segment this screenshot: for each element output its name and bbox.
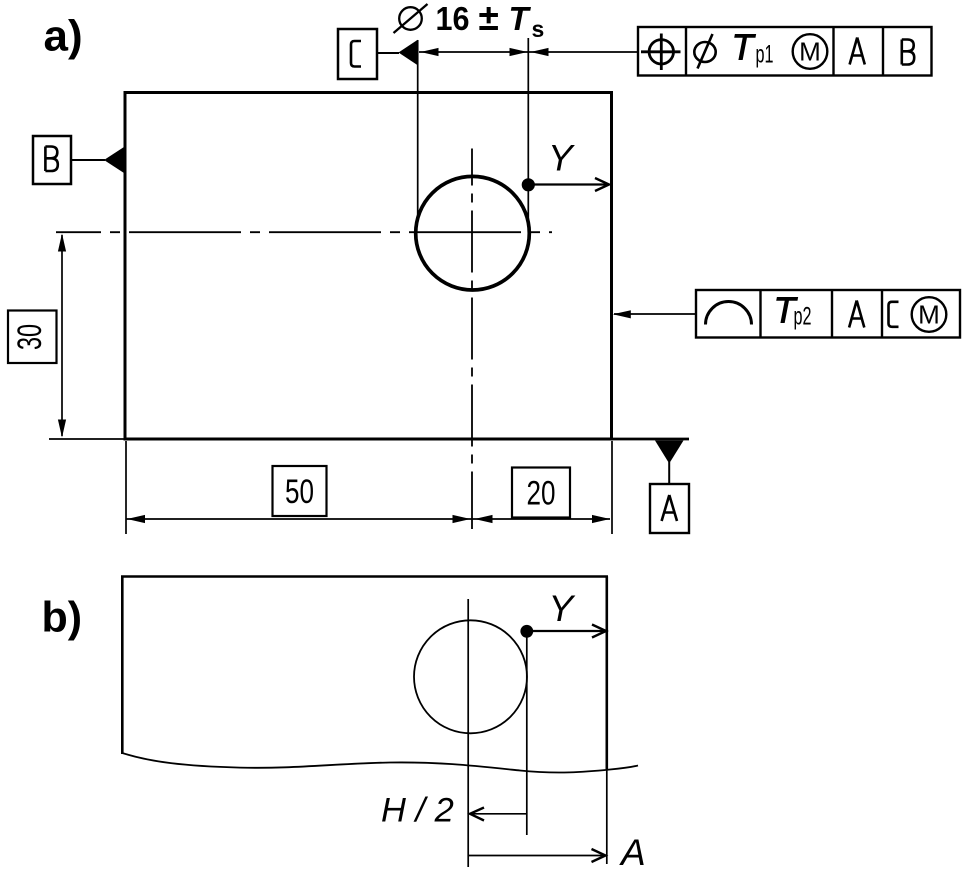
H/2 dimension: [381, 792, 527, 830]
phi symbol: [694, 42, 715, 62]
horizontal centerline: [56, 231, 552, 233]
break line wavy: [122, 753, 638, 773]
svg-text:M: M: [799, 37, 821, 67]
svg-text:50: 50: [285, 473, 314, 511]
extension line right tangent: [527, 38, 529, 220]
arc symbol: [706, 302, 752, 325]
datum B symbol: [33, 136, 126, 184]
tangent line b: [526, 632, 528, 836]
svg-text:p2: p2: [794, 303, 812, 331]
B: [902, 40, 914, 65]
feature control frame 2 (profile): [613, 290, 960, 338]
C: [889, 302, 899, 327]
dot and Y arrow view a: [522, 138, 609, 192]
position symbol: [649, 40, 673, 64]
svg-text:A: A: [619, 832, 646, 873]
svg-text:Y: Y: [549, 588, 576, 629]
dim arrow right-in: [510, 48, 528, 56]
svg-text:M: M: [918, 300, 940, 330]
A: [849, 301, 864, 328]
diameter dimension line and leader to frame 1: [419, 51, 638, 53]
hole circle b: [414, 620, 527, 733]
dot and Y arrow view b: [520, 588, 606, 638]
svg-text:30: 30: [11, 324, 49, 350]
svg-text:s: s: [532, 16, 545, 42]
extension line left tangent: [417, 40, 419, 217]
svg-text:±: ±: [479, 0, 499, 38]
part outline view a: [125, 93, 612, 440]
dim arrow left: [421, 48, 439, 56]
center plane line b: [467, 599, 469, 867]
dimension text dia 16 +- Ts: [394, 0, 545, 42]
vertical centerline: [471, 149, 473, 530]
circled M: [912, 297, 947, 332]
svg-text:p1: p1: [756, 41, 774, 69]
svg-text:20: 20: [527, 475, 556, 513]
part outline view b: [121, 577, 638, 773]
svg-text:a): a): [44, 12, 83, 61]
feature control frame 1 (position): [638, 27, 932, 76]
svg-text:b): b): [42, 594, 83, 642]
svg-text:Y: Y: [548, 138, 575, 179]
A dimension view b: [468, 769, 645, 873]
circled M: [793, 34, 828, 69]
svg-text:T: T: [732, 27, 757, 68]
A: [850, 38, 865, 65]
svg-text:T: T: [509, 0, 532, 37]
50 and 20 dimensions: [126, 441, 612, 534]
datum C symbol: [338, 29, 418, 79]
svg-text:H / 2: H / 2: [381, 792, 454, 830]
30 dimension: [8, 234, 124, 440]
dim arrow right-out: [531, 48, 549, 56]
svg-text:16: 16: [436, 0, 470, 37]
datum A symbol: [611, 439, 689, 533]
hole circle a: [416, 176, 530, 290]
